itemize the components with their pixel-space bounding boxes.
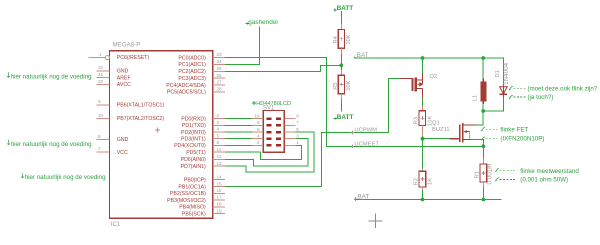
svg-text:12: 12: [217, 154, 223, 159]
junction rail/Q2: [421, 56, 425, 60]
svg-text:UCMEET: UCMEET: [354, 142, 379, 148]
junction R3/R2/Q1 gate: [421, 137, 425, 141]
svg-text:R2: R2: [414, 178, 420, 185]
IC1 pin 28 PC5(ADC5/SCL): [213, 91, 226, 93]
svg-text:10: 10: [98, 113, 104, 118]
IC1 pin 26 PC3(ADC3): [213, 77, 226, 79]
wire Q1 drain to L1/D1: [476, 111, 483, 125]
IC IC1 MEGA8-P body: [110, 51, 213, 219]
IC1 pin 6 PD4(XCK/T0): [213, 144, 226, 146]
svg-text:PB3(MOSI/OC2): PB3(MOSI/OC2): [167, 198, 206, 204]
wire node to R1: [482, 146, 484, 158]
svg-text:20: 20: [98, 79, 104, 84]
IC1 pin 13 PD7(AIN1): [213, 165, 226, 167]
svg-text:19: 19: [217, 208, 223, 213]
annotation arrow moet: [509, 86, 513, 90]
IC1 pin 9 PB6(XTAL1/TOSC1): [97, 104, 110, 106]
svg-text:AREF: AREF: [117, 75, 131, 81]
svg-text:2: 2: [257, 140, 260, 145]
svg-text:(IXFN200N10P): (IXFN200N10P): [500, 136, 544, 143]
IC1 pin 20 AVCC: [97, 84, 110, 86]
svg-text:5: 5: [296, 127, 299, 132]
svg-text:1: 1: [99, 52, 102, 57]
svg-text:PB1(OC1A): PB1(OC1A): [178, 184, 206, 190]
svg-text:R1: R1: [474, 171, 480, 178]
svg-text:10K: 10K: [346, 80, 352, 90]
svg-text:IC1: IC1: [111, 222, 121, 228]
svg-text:PD6(AIN0): PD6(AIN0): [181, 157, 206, 163]
svg-text:9: 9: [296, 113, 299, 118]
svg-text:11: 11: [217, 147, 222, 152]
+BAT label cross: [353, 55, 357, 59]
svg-text:6: 6: [217, 140, 220, 145]
IC1 pin 1 PC6(/RESET): [88, 57, 105, 59]
svg-text:21: 21: [98, 72, 104, 77]
wire Q1 source to node: [470, 140, 483, 147]
svg-text:PB5(SCK): PB5(SCK): [182, 211, 206, 217]
svg-text:28: 28: [217, 87, 223, 92]
svg-text:PB4(MISO): PB4(MISO): [179, 205, 206, 211]
svg-text:4: 4: [257, 133, 260, 138]
UCPWM label cross: [351, 131, 355, 135]
IC1 pin 5 PD3(INT1): [213, 138, 226, 140]
svg-text:0.001m: 0.001m: [487, 163, 494, 184]
wire PC2 to divider: [225, 65, 341, 71]
svg-text:hier natuurlijk nog de voeding: hier natuurlijk nog de voeding: [11, 74, 92, 81]
IC1 pin 14 PB0(ICP): [213, 179, 226, 181]
IC1 pin 12 PD6(AIN0): [213, 158, 226, 160]
svg-text:10: 10: [254, 113, 260, 118]
IC1 pin 8 GND: [97, 139, 110, 141]
IC1 pin 21 AREF: [97, 77, 110, 79]
resistor R4 10K: [340, 24, 342, 29]
svg-text:SV1: SV1: [263, 106, 275, 112]
wire rail to Q2 source: [422, 58, 424, 73]
annotation arrow flinke FET: [481, 127, 485, 131]
wire R3 to gate node: [422, 136, 424, 139]
svg-text:PB7(XTAL2/TOSC2): PB7(XTAL2/TOSC2): [117, 116, 165, 122]
IC1 pin 25 PC2(ADC2): [213, 70, 226, 72]
annotation hier natuurlijk nog de voeding 3: [21, 173, 24, 178]
wire gate node to R2: [422, 139, 424, 169]
annotation hier natuurlijk nog de voeding 2: [7, 140, 10, 145]
wire R1 to -BAT rail: [482, 187, 484, 200]
wire PD7 to SV1 pin5: [225, 132, 314, 172]
wire +BAT rail to D1: [355, 58, 504, 87]
IC1 pin 10 PB7(XTAL2/TOSC2): [97, 118, 110, 120]
svg-text:(0,001 ohm 50W): (0,001 ohm 50W): [520, 176, 568, 183]
wire PB1/UCPWM to Q2 gate: [225, 79, 399, 187]
svg-text:PD0(RXD): PD0(RXD): [181, 116, 206, 122]
svg-text:3: 3: [217, 120, 220, 125]
annotation arrow meetweerstand: [495, 168, 499, 172]
wire node to D1 cathode: [483, 98, 503, 112]
svg-text:R5: R5: [333, 82, 339, 89]
svg-text:PB6(XTAL1/TOSC1): PB6(XTAL1/TOSC1): [117, 102, 165, 108]
junction R4/R5/PC2: [339, 63, 343, 67]
connector SV1 body: [263, 111, 284, 153]
svg-text:8: 8: [98, 134, 101, 139]
annotation arrow 0001ohm: [495, 178, 499, 182]
svg-text:PC4(ADC4/SDA): PC4(ADC4/SDA): [166, 83, 206, 89]
svg-text:1: 1: [296, 140, 299, 145]
resistor R2 1K: [422, 168, 424, 171]
IC1 pin 27 PC4(ADC4/SDA): [213, 84, 226, 86]
svg-text:PB2(SS/OC1B): PB2(SS/OC1B): [170, 191, 206, 197]
SV1 pins 4/3: [252, 138, 263, 140]
UCMEET label cross: [351, 145, 355, 149]
wire gashendel to PC1: [225, 27, 259, 65]
IC1 pin 2 PD0(RXD): [213, 118, 226, 120]
wire L1 to node: [482, 104, 484, 111]
wire rail to L1: [482, 58, 484, 78]
svg-text:5: 5: [217, 133, 220, 138]
IC1 origin cross: [155, 128, 160, 133]
wire IC1-SV1 row: [225, 138, 252, 140]
svg-text:14: 14: [217, 174, 223, 179]
wire R2 to -BAT rail: [422, 190, 424, 199]
wire PD6 to SV1 pin3: [225, 139, 308, 166]
resistor R3 10K: [422, 106, 424, 111]
svg-text:PD1(TXD): PD1(TXD): [182, 123, 206, 129]
svg-text:PB0(ICP): PB0(ICP): [184, 177, 206, 183]
svg-text:3: 3: [296, 133, 299, 138]
svg-text:Q1: Q1: [432, 121, 440, 127]
IC1 pin 11 PD5(T1): [213, 151, 226, 153]
svg-text:PC3(ADC3): PC3(ADC3): [178, 76, 206, 82]
svg-text:gashendel: gashendel: [248, 19, 277, 26]
svg-text:26: 26: [217, 73, 223, 78]
svg-text:flinke meetweerstand: flinke meetweerstand: [520, 168, 579, 175]
IC1 pin 17 PB3(MOSI/OC2): [213, 199, 226, 201]
wire R4-R5: [340, 53, 342, 70]
svg-text:PD3(INT1): PD3(INT1): [181, 136, 206, 142]
IC1 pin 19 PB5(SCK): [213, 213, 226, 215]
svg-text:L1: L1: [473, 95, 479, 101]
wire Q2 to R3: [422, 98, 424, 106]
IC1 pin 16 PB2(SS/OC1B): [213, 192, 226, 194]
+BATT bottom cross: [334, 117, 337, 120]
wire +BATT to R4: [340, 11, 342, 24]
SV1 pins 10/9: [252, 118, 263, 120]
SV1 pins 8/7: [252, 124, 263, 126]
svg-text:BATT: BATT: [337, 5, 354, 12]
svg-text:23: 23: [217, 52, 223, 57]
wire IC1-SV1 row: [225, 144, 252, 146]
svg-text:18: 18: [217, 202, 223, 207]
svg-text:27: 27: [217, 80, 223, 85]
junction rail/R2: [421, 198, 425, 202]
wire IC1-SV1 row: [225, 131, 252, 133]
IC1 pin 22 GND: [97, 70, 110, 72]
svg-text:R3: R3: [413, 117, 419, 124]
svg-text:25: 25: [217, 66, 223, 71]
annotation hier natuurlijk nog de voeding 1: [7, 72, 10, 77]
+BATT top cross: [333, 8, 336, 11]
svg-text:1K: 1K: [428, 178, 434, 185]
IC1 pin 7 VCC: [97, 151, 110, 153]
svg-text:10K: 10K: [346, 34, 352, 44]
svg-text:6: 6: [257, 127, 260, 132]
svg-text:17: 17: [217, 195, 223, 200]
svg-text:GND: GND: [117, 137, 129, 143]
svg-text:PD7(AIN1): PD7(AIN1): [181, 164, 206, 170]
IC1 pin 15 PB1(OC1A): [213, 186, 226, 188]
svg-text:MEGA8-P: MEGA8-P: [113, 41, 141, 48]
svg-text:BUZ11: BUZ11: [432, 127, 450, 133]
svg-text:PC6(/RESET): PC6(/RESET): [117, 55, 150, 61]
svg-text:13: 13: [217, 161, 223, 166]
-BAT label cross: [354, 197, 358, 201]
svg-text:hier natuurlijk nog de voeding: hier natuurlijk nog de voeding: [11, 141, 92, 148]
svg-text:16: 16: [217, 188, 223, 193]
svg-text:PD2(INT0): PD2(INT0): [181, 130, 206, 136]
svg-text:1N4004: 1N4004: [503, 62, 510, 85]
IC1 pin 18 PB4(MISO): [213, 206, 226, 208]
svg-text:22: 22: [98, 65, 104, 70]
svg-text:PD5(T1): PD5(T1): [186, 150, 206, 156]
annotation arrow IXFN: [481, 137, 485, 141]
svg-text:PC0(ADC0): PC0(ADC0): [178, 55, 206, 61]
IC1 pin 3 PD1(TXD): [213, 124, 226, 126]
SV1 pins 6/5: [252, 131, 263, 133]
svg-text:24: 24: [217, 59, 223, 64]
svg-text:Q2: Q2: [429, 74, 437, 80]
SV1 pins 2/1: [252, 144, 263, 146]
annotation arrow ja toch: [509, 95, 513, 99]
svg-text:PC5(ADC5/SCL): PC5(ADC5/SCL): [167, 90, 206, 96]
svg-text:UCPWM: UCPWM: [354, 128, 377, 134]
wire IC1-SV1 row: [225, 118, 252, 120]
svg-text:9: 9: [98, 99, 101, 104]
wire -BAT rail: [354, 199, 501, 201]
svg-text:15: 15: [217, 181, 223, 186]
svg-text:(moet deze ook flink zijn?: (moet deze ook flink zijn?: [528, 86, 598, 93]
resistor R5 10K: [340, 70, 342, 75]
svg-text:flinke FET: flinke FET: [500, 127, 528, 134]
svg-text:7: 7: [296, 120, 299, 125]
svg-text:AVCC: AVCC: [117, 82, 131, 88]
svg-text:4: 4: [217, 127, 220, 132]
wire gate node to Q1: [423, 138, 450, 140]
sheet origin cross: [369, 214, 383, 228]
junction rail/L1: [481, 56, 485, 60]
svg-text:8: 8: [257, 120, 260, 125]
svg-text:R4: R4: [333, 35, 339, 43]
IC1 pin 23 PC0(ADC0): [213, 57, 226, 59]
svg-text:D1: D1: [495, 70, 501, 77]
svg-text:2: 2: [217, 113, 220, 118]
svg-text:PD4(XCK/T0): PD4(XCK/T0): [174, 143, 206, 149]
svg-text:BATT: BATT: [337, 114, 354, 121]
svg-text:PC1(ADC1): PC1(ADC1): [178, 62, 206, 68]
wire R5 to +BATT: [340, 99, 342, 112]
IC1 pin 4 PD2(INT0): [213, 131, 226, 133]
junction L1/D1/Q1 drain: [481, 109, 485, 113]
HD44780LCD label cross: [252, 101, 256, 105]
junction UCMEET/Q1 source/R1: [482, 144, 486, 148]
IC1 pin 24 PC1(ADC1): [213, 63, 226, 65]
svg-text:hier natuurlijk nog de voeding: hier natuurlijk nog de voeding: [25, 174, 106, 181]
wire PC0/UCMEET net: [225, 58, 483, 147]
wire IC1-SV1 row: [225, 124, 252, 126]
svg-text:GND: GND: [117, 68, 129, 74]
wire PD5 to SV1 pin1: [225, 145, 302, 159]
svg-text:(ja toch?): (ja toch?): [528, 94, 554, 101]
svg-text:VCC: VCC: [117, 150, 128, 156]
svg-text:PC2(ADC2): PC2(ADC2): [178, 69, 206, 75]
junction rail/R1: [482, 198, 486, 202]
svg-text:7: 7: [98, 147, 101, 152]
